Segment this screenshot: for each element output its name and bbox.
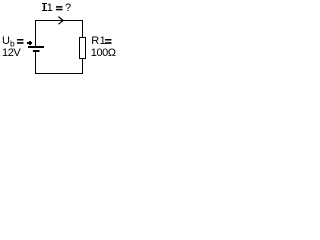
svg-text:1: 1 <box>47 2 53 14</box>
voltage source Ub short plate (-) <box>33 50 40 52</box>
svg-text:?: ? <box>65 2 71 14</box>
voltage source Ub plus sign <box>27 42 32 44</box>
svg-text:100Ω: 100Ω <box>91 47 116 59</box>
equals sign of I1 = ? <box>56 6 63 8</box>
wire left upper (Ub + terminal to top wire) <box>35 20 37 46</box>
current arrow I1 on top wire <box>58 17 63 25</box>
equals sign of Ub = <box>17 39 24 41</box>
svg-text:12V: 12V <box>2 47 21 59</box>
label I (serif capital I of I1) <box>42 3 47 4</box>
wire right upper (top wire to R1 pin 1) <box>82 20 84 38</box>
wire bottom (return path) <box>35 73 83 75</box>
resistor R1 body <box>80 38 86 59</box>
wire top (node between source + and R1 top) <box>35 20 83 22</box>
equals sign of R1 = <box>105 39 112 41</box>
svg-text:R1: R1 <box>91 35 106 47</box>
wire left lower (Ub - terminal to bottom wire) <box>35 51 37 74</box>
voltage source Ub long plate (+) <box>28 46 44 48</box>
wire right lower (R1 pin 2 to bottom wire) <box>82 59 84 75</box>
